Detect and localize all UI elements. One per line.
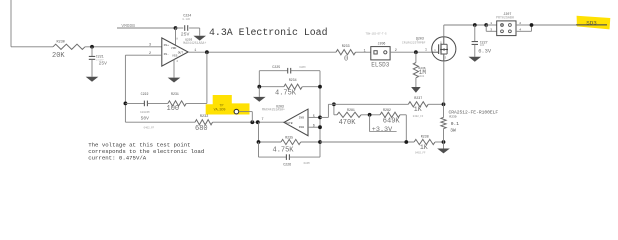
- svg-text:100: 100: [167, 105, 180, 113]
- svg-text:J206: J206: [378, 42, 386, 46]
- svg-text:6: 6: [313, 124, 315, 128]
- svg-text:4.3A Electronic Load: 4.3A Electronic Load: [209, 27, 328, 38]
- svg-text:VDD: VDD: [171, 47, 177, 50]
- svg-text:1: 1: [490, 21, 492, 25]
- svg-text:VSS: VSS: [172, 55, 178, 58]
- svg-text:R237: R237: [414, 96, 422, 100]
- svg-text:R239: R239: [449, 115, 456, 118]
- svg-text:470K: 470K: [339, 119, 357, 127]
- svg-text:2: 2: [519, 21, 521, 25]
- svg-text:OUTB: OUTB: [285, 122, 292, 125]
- svg-text:R282: R282: [383, 108, 391, 112]
- svg-text:INB: INB: [299, 117, 305, 120]
- svg-text:0402_FF: 0402_FF: [415, 152, 426, 155]
- svg-text:68PF: 68PF: [299, 66, 306, 69]
- svg-text:649K: 649K: [383, 118, 401, 126]
- svg-text:R232: R232: [200, 115, 208, 119]
- svg-text:0402_FF: 0402_FF: [413, 115, 424, 118]
- svg-text:current: 0.475V/A: current: 0.475V/A: [88, 155, 147, 162]
- svg-text:4.75K: 4.75K: [275, 89, 297, 97]
- svg-text:R235: R235: [285, 136, 293, 140]
- svg-text:4: 4: [519, 27, 521, 31]
- svg-text:C225: C225: [272, 65, 280, 69]
- svg-text:R230: R230: [57, 40, 65, 44]
- svg-text:3: 3: [490, 27, 492, 31]
- svg-text:1K: 1K: [414, 106, 422, 113]
- svg-text:4.75K: 4.75K: [273, 146, 295, 154]
- svg-text:0: 0: [344, 55, 348, 63]
- svg-text:OUT: OUT: [178, 52, 184, 55]
- svg-text:INB: INB: [299, 126, 305, 129]
- svg-text:MAX44251ASA+: MAX44251ASA+: [262, 108, 285, 112]
- svg-text:0.1UF: 0.1UF: [182, 18, 190, 21]
- svg-text:0402_FF: 0402_FF: [144, 126, 155, 129]
- svg-text:VA_SD9: VA_SD9: [214, 108, 226, 112]
- svg-text:0402: 0402: [418, 75, 425, 78]
- svg-text:PRT02SABH: PRT02SABH: [496, 16, 514, 20]
- svg-text:Q203: Q203: [416, 36, 424, 40]
- svg-text:ELSD3: ELSD3: [371, 62, 389, 69]
- svg-text:IN+: IN+: [163, 43, 169, 47]
- svg-text:1000PF: 1000PF: [140, 111, 150, 114]
- svg-text:IRLR6225TRPBF: IRLR6225TRPBF: [402, 42, 426, 45]
- svg-text:MAX44251ASA+: MAX44251ASA+: [183, 41, 206, 45]
- svg-text:IN-: IN-: [163, 52, 169, 56]
- svg-text:7: 7: [262, 118, 264, 122]
- svg-text:1: 1: [364, 49, 366, 53]
- svg-text:R231: R231: [171, 92, 179, 96]
- svg-text:25V: 25V: [181, 31, 190, 37]
- svg-text:25V: 25V: [99, 61, 108, 67]
- svg-text:1K: 1K: [420, 144, 428, 151]
- svg-text:1: 1: [425, 47, 427, 51]
- svg-text:SD3: SD3: [586, 20, 597, 27]
- svg-text:20K: 20K: [52, 52, 65, 60]
- svg-text:R234: R234: [289, 78, 297, 82]
- svg-text:50V: 50V: [141, 115, 150, 121]
- svg-text:C226: C226: [283, 162, 291, 166]
- svg-text:3W: 3W: [450, 128, 456, 134]
- svg-text:TSW-102-07-T-S: TSW-102-07-T-S: [366, 33, 388, 36]
- svg-text:680: 680: [195, 125, 208, 133]
- svg-text:R238: R238: [421, 135, 429, 139]
- svg-text:3: 3: [149, 44, 151, 48]
- svg-text:68PF: 68PF: [304, 162, 311, 165]
- svg-text:2: 2: [395, 49, 397, 53]
- svg-text:6.3V: 6.3V: [478, 49, 492, 55]
- svg-text:+3.3V: +3.3V: [372, 126, 393, 134]
- svg-text:R233: R233: [342, 44, 350, 48]
- svg-text:5: 5: [313, 115, 315, 119]
- svg-text:C222: C222: [141, 92, 149, 96]
- svg-text:R281: R281: [347, 108, 355, 112]
- svg-text:VMODB: VMODB: [121, 23, 135, 29]
- svg-text:0.1: 0.1: [451, 121, 460, 127]
- svg-text:1UF: 1UF: [480, 44, 485, 47]
